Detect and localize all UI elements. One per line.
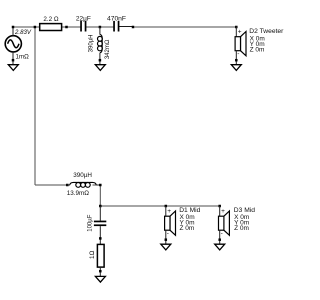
svg-text:390µH: 390µH [89, 34, 95, 52]
resistor R2 1 ohm [89, 244, 104, 276]
svg-text:470nF: 470nF [107, 15, 126, 22]
wire 470nF to tweeter [119, 26, 134, 28]
node D3 plus corner [218, 205, 221, 208]
wire vertical feed to low-pass section [34, 27, 36, 185]
svg-text:+: + [238, 28, 242, 35]
node R2 ground pin [99, 270, 102, 273]
svg-text:Z 0m: Z 0m [250, 46, 265, 53]
node tweeter ground pin [235, 59, 238, 62]
svg-text:100µF: 100µF [87, 214, 93, 231]
svg-text:D2 Tweeter: D2 Tweeter [249, 28, 284, 35]
inductor L1 390uH shunt [89, 27, 111, 65]
ground [231, 65, 241, 71]
capacitor C1 22uF [76, 15, 91, 31]
svg-text:342mΩ: 342mΩ [105, 39, 111, 59]
node tweeter net junction [132, 26, 135, 29]
svg-text:-: - [221, 230, 223, 237]
node D1 ground pin [165, 238, 168, 241]
svg-text:2.2 Ω: 2.2 Ω [43, 16, 59, 23]
svg-text:Z 0m: Z 0m [234, 225, 249, 232]
node L1 ground pin [99, 59, 102, 62]
ground [161, 244, 171, 250]
wire 22uF to 470nF across inductor node [86, 26, 114, 28]
svg-text:Z 0m: Z 0m [180, 225, 195, 232]
node generator ground pin [12, 59, 15, 62]
svg-text:390µH: 390µH [73, 172, 92, 179]
svg-text:13.9mΩ: 13.9mΩ [67, 190, 90, 197]
wire resistor to 22uF cap [62, 26, 81, 28]
capacitor C2 470nF [107, 15, 126, 31]
wire mid net to speakers [100, 205, 219, 207]
svg-text:2.83V: 2.83V [14, 29, 32, 36]
wire vertical L2 corner down [99, 185, 101, 206]
node D3 ground pin [218, 238, 221, 241]
node C3-R2 junction [99, 237, 102, 240]
svg-text:-: - [167, 230, 169, 237]
node junction to low-pass feed [34, 26, 37, 29]
node L2 right corner [99, 184, 102, 187]
svg-text:-: - [237, 51, 239, 58]
speaker D2 Tweeter [235, 27, 284, 65]
node inductor L1 top junction [99, 26, 102, 29]
inductor L2 390uH series [67, 172, 101, 197]
capacitor C3 100uF shunt [87, 206, 106, 244]
ground [95, 276, 105, 282]
svg-text:1Ω: 1Ω [89, 250, 96, 259]
svg-text:22µF: 22µF [76, 15, 91, 22]
generator V1 [5, 27, 32, 65]
node L2 left pin [66, 184, 69, 187]
node generator output [12, 26, 15, 29]
wire top net from generator to resistor [13, 26, 40, 28]
svg-text:+: + [167, 208, 171, 215]
svg-text:+: + [221, 208, 225, 215]
speaker D3 Mid [219, 206, 256, 244]
node D1 plus junction [165, 205, 168, 208]
node tweeter plus corner [235, 26, 238, 29]
ground [215, 244, 225, 250]
svg-text:D3 Mid: D3 Mid [234, 207, 255, 214]
resistor R1 [40, 16, 62, 31]
wire L2 to mid node [93, 184, 101, 186]
node mid tee junction [99, 205, 102, 208]
ground [95, 65, 105, 71]
speaker D1 Mid [165, 206, 201, 244]
ground [8, 65, 18, 71]
svg-text:D1 Mid: D1 Mid [179, 207, 200, 214]
svg-text:1mΩ: 1mΩ [16, 53, 30, 60]
node resistor-capacitor junction [65, 26, 68, 29]
wire horizontal to inductor L2 [35, 184, 67, 186]
